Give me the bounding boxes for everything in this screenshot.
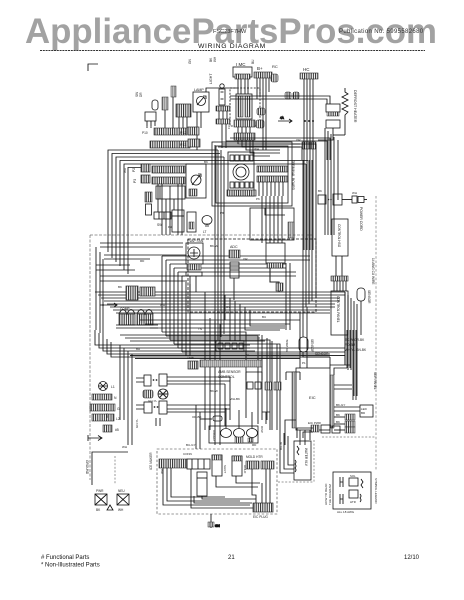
wire drops from P2 bbox=[257, 78, 269, 150]
right boundary dash-dot bbox=[371, 196, 377, 470]
svg-text:G: G bbox=[117, 407, 120, 411]
svg-text:EIC PLUG: EIC PLUG bbox=[253, 515, 268, 519]
svg-text:SW: SW bbox=[157, 223, 163, 227]
ground L wire bbox=[92, 452, 128, 485]
connector J3 dark bbox=[180, 139, 200, 147]
dispenser box with motors bbox=[209, 426, 264, 443]
defrost timer M1 bbox=[228, 152, 254, 196]
svg-text:ADC: ADC bbox=[230, 245, 238, 249]
svg-text:SENSOR: SENSOR bbox=[315, 352, 329, 356]
plug X2 bbox=[117, 489, 129, 512]
svg-text:WH: WH bbox=[122, 445, 127, 449]
EIC right fanned wires bbox=[334, 385, 360, 430]
junction pointer left bbox=[100, 303, 117, 307]
terminal wires long drop bbox=[262, 196, 290, 330]
wire pair below label box bbox=[336, 256, 342, 276]
wire bundle left of valve bbox=[280, 430, 294, 473]
svg-text:BK WIRE: BK WIRE bbox=[285, 339, 289, 352]
svg-text:L2: L2 bbox=[116, 417, 120, 421]
svg-text:21: 21 bbox=[228, 555, 235, 561]
svg-text:FSC23F7HW: FSC23F7HW bbox=[213, 29, 247, 35]
svg-text:P13: P13 bbox=[180, 143, 186, 147]
adc housing box bbox=[250, 208, 294, 240]
svg-text:L1: L1 bbox=[111, 385, 115, 389]
footer functional parts note bbox=[41, 555, 100, 569]
svg-text:#5: #5 bbox=[115, 428, 119, 432]
strip TS3 bbox=[154, 212, 171, 227]
inline connector chain 1 bbox=[136, 374, 230, 386]
staircase corners center bbox=[205, 292, 285, 341]
svg-text:WH: WH bbox=[118, 508, 124, 512]
connector J2 dark bbox=[180, 127, 199, 135]
svg-text:WH: WH bbox=[352, 191, 357, 195]
label RC bbox=[272, 64, 278, 69]
svg-text:GN: GN bbox=[105, 414, 109, 419]
svg-text:TMB: TMB bbox=[187, 356, 194, 360]
freezer lamp box bbox=[186, 164, 206, 198]
highway right turns down bbox=[345, 292, 357, 396]
dispenser feed wires bbox=[200, 408, 270, 428]
svg-text:BK: BK bbox=[204, 160, 208, 164]
ice maker connector strip bbox=[159, 459, 210, 469]
right harness box bbox=[360, 405, 373, 417]
svg-text:SENSOR: SENSOR bbox=[367, 290, 371, 304]
mid terminal strip with squares bbox=[216, 341, 244, 351]
dark connector pair on wire bbox=[285, 92, 299, 99]
EIC left pin strip bbox=[292, 372, 296, 428]
svg-text:P9: P9 bbox=[168, 225, 172, 229]
staircase corners right-mid bbox=[196, 377, 230, 449]
wires from terminal strips down bbox=[158, 184, 182, 235]
footer date bbox=[404, 555, 420, 561]
left verticals down bbox=[96, 247, 103, 336]
svg-text:TERMINAL BOARD: TERMINAL BOARD bbox=[291, 160, 295, 191]
knot nested corners mid-left bbox=[95, 330, 330, 357]
svg-text:ICE MAKER: ICE MAKER bbox=[149, 452, 153, 470]
HC mid pins bbox=[302, 120, 316, 149]
dashed line under EIC bbox=[322, 436, 375, 438]
wire drops from P1 bbox=[238, 79, 248, 94]
svg-text:P10: P10 bbox=[142, 131, 148, 135]
title WIRING DIAGRAM bbox=[198, 43, 266, 50]
svg-text:MOLD HTR: MOLD HTR bbox=[246, 455, 263, 459]
svg-text:BK: BK bbox=[318, 189, 322, 193]
dark bar bbox=[150, 141, 190, 148]
svg-text:EVAP FAN: EVAP FAN bbox=[187, 239, 204, 243]
bottom-left arrow symbol bbox=[88, 435, 102, 441]
connector dark CN-L1 bbox=[132, 164, 150, 172]
svg-text:HTR: HTR bbox=[350, 500, 356, 504]
margin dash label bbox=[135, 419, 139, 429]
svg-text:BK-W: BK-W bbox=[210, 389, 218, 393]
EIC bottom wires bbox=[285, 420, 310, 445]
label box control housing bbox=[332, 219, 348, 256]
terminal strip TS1 bbox=[152, 166, 185, 173]
EIC board bbox=[296, 368, 330, 430]
svg-text:DR: DR bbox=[139, 92, 143, 97]
highway turns into EIC verticals bbox=[300, 307, 307, 368]
wires top of water valve bbox=[297, 428, 313, 438]
svg-text:CONTROL PANEL: CONTROL PANEL bbox=[336, 296, 340, 323]
ice maker dashed box bbox=[149, 449, 277, 514]
svg-text:I MC: I MC bbox=[236, 62, 246, 67]
ice maker tall boxes bbox=[212, 455, 260, 487]
long strip mid bbox=[200, 360, 262, 379]
svg-text:BK: BK bbox=[118, 285, 122, 289]
svg-text:GY: GY bbox=[226, 305, 230, 309]
water valve dashed boundary bbox=[278, 440, 314, 482]
svg-text:P6: P6 bbox=[256, 197, 260, 201]
svg-text:RC: RC bbox=[272, 64, 278, 69]
stub below ice maker bbox=[208, 514, 220, 528]
trunk horizontals upper (to right bundles) bbox=[218, 138, 330, 160]
svg-text:BU-GY: BU-GY bbox=[186, 443, 196, 447]
publication number text bbox=[339, 29, 424, 35]
water valve box bbox=[279, 441, 311, 480]
bracket contacts bbox=[246, 372, 300, 380]
vertical bundle right x~303-313 bbox=[303, 160, 316, 310]
S-bundle upper horizontals bbox=[162, 256, 310, 276]
dark control box bbox=[176, 104, 191, 128]
wires left cluster bbox=[197, 88, 237, 150]
svg-text:GN-YL: GN-YL bbox=[135, 419, 139, 429]
ice maker nested wires bbox=[163, 468, 256, 508]
svg-text:14 AWG CU WIRE: 14 AWG CU WIRE bbox=[371, 258, 375, 284]
timer bottom bar dark bbox=[227, 190, 256, 196]
svg-text:ALL 18 AWG: ALL 18 AWG bbox=[337, 510, 355, 514]
svg-text:P8: P8 bbox=[220, 211, 224, 215]
band lines upper mid bbox=[96, 243, 186, 281]
dark connector RC2 bbox=[257, 108, 265, 115]
heavy trunk dark bbox=[130, 356, 345, 359]
knot verticals down bbox=[120, 345, 132, 445]
model number text bbox=[213, 29, 247, 35]
left margin strip 3 bbox=[92, 414, 120, 421]
defrost heater assembly bbox=[266, 243, 285, 292]
svg-text:BK: BK bbox=[336, 413, 340, 417]
wires descending center to bottom bbox=[205, 315, 277, 445]
relay box K2 bbox=[172, 210, 184, 232]
wire drops from P3 bbox=[304, 79, 313, 250]
label box lower right bbox=[331, 291, 348, 335]
svg-text:WH: WH bbox=[160, 303, 165, 307]
arrow marker bbox=[278, 116, 292, 123]
S-bundle lower horizontals bbox=[162, 332, 345, 430]
main trunk highway horizontal bbox=[95, 292, 345, 313]
svg-text:GN-YL: GN-YL bbox=[148, 399, 158, 403]
vertical bundle right x~325-340 bbox=[325, 128, 338, 235]
tiny connectors M-M bbox=[247, 382, 281, 390]
watermark AppliancePartsPros.com bbox=[25, 12, 437, 51]
svg-text:THE DIAGRAM: THE DIAGRAM bbox=[328, 484, 332, 505]
connector strip under fuse bbox=[216, 106, 230, 148]
capsule switch bbox=[135, 92, 158, 110]
svg-text:OR-BK: OR-BK bbox=[192, 415, 202, 419]
terminal strip TS2 bbox=[152, 177, 185, 184]
EIC right pin strip bbox=[330, 375, 334, 428]
svg-text:EIC: EIC bbox=[309, 395, 316, 400]
wire color labels scattered bbox=[105, 125, 357, 449]
svg-text:SER PANEL: SER PANEL bbox=[373, 372, 377, 390]
wires under terminal board bbox=[259, 182, 283, 196]
cabinet boundary vertical left bbox=[89, 235, 91, 480]
ice maker right strip bbox=[246, 455, 274, 469]
svg-text:SENSOR: SENSOR bbox=[310, 339, 314, 353]
lamp assembly freezer light bbox=[193, 88, 209, 112]
svg-text:B+: B+ bbox=[257, 66, 263, 71]
compressor cluster bbox=[116, 286, 158, 328]
svg-text:GN: GN bbox=[215, 524, 220, 528]
svg-text:COMP: COMP bbox=[120, 307, 130, 311]
S-bundle left verticals bbox=[162, 256, 182, 352]
EIC wires into top nested bbox=[330, 292, 350, 375]
control box K1 bbox=[156, 186, 185, 199]
dark connector RC3 bbox=[256, 120, 264, 128]
left margin strip 2 bbox=[90, 404, 120, 411]
timer enclosure boxes bbox=[212, 142, 292, 206]
dark connector RC1 bbox=[271, 74, 278, 82]
svg-text:TN: TN bbox=[198, 327, 202, 331]
svg-text:WH: WH bbox=[254, 147, 259, 151]
svg-text:* Non-Illustrated Parts: * Non-Illustrated Parts bbox=[41, 563, 100, 569]
svg-text:BU: BU bbox=[251, 59, 255, 64]
svg-text:DISP: DISP bbox=[260, 426, 264, 433]
svg-text:EIC PWR: EIC PWR bbox=[308, 421, 322, 425]
svg-text:DEFROST HEATER: DEFROST HEATER bbox=[353, 90, 357, 123]
terminal board TB bbox=[257, 160, 295, 191]
svg-text:SYMBOL LEGEND: SYMBOL LEGEND bbox=[374, 478, 378, 504]
svg-text:P3: P3 bbox=[133, 179, 137, 183]
footer page number bbox=[228, 555, 235, 561]
inline connectors right of EIC bbox=[345, 414, 355, 433]
svg-text:LAMP: LAMP bbox=[194, 88, 204, 92]
svg-text:BK: BK bbox=[336, 420, 340, 424]
svg-text:LT: LT bbox=[203, 230, 207, 234]
svg-text:AMB SENSOR: AMB SENSOR bbox=[218, 370, 241, 374]
svg-text:SHUT: SHUT bbox=[223, 465, 227, 473]
svg-text:BK-W OR-BK: BK-W OR-BK bbox=[345, 338, 365, 342]
svg-text:WH: WH bbox=[213, 56, 217, 62]
dashed drop bbox=[85, 456, 115, 484]
svg-text:BU: BU bbox=[262, 315, 266, 319]
sensor oval bbox=[299, 337, 330, 357]
svg-text:SOL: SOL bbox=[350, 474, 356, 478]
svg-text:YL: YL bbox=[246, 353, 250, 357]
svg-text:BK-GY: BK-GY bbox=[336, 403, 345, 407]
svg-text:WIRING DIAGRAM: WIRING DIAGRAM bbox=[198, 43, 266, 50]
inline connector chain 2 bbox=[136, 401, 230, 426]
svg-text:# Functional Parts: # Functional Parts bbox=[41, 555, 89, 561]
power cord chain bbox=[318, 194, 367, 231]
top small marks above arrow bbox=[103, 425, 119, 432]
left margin icon pair bbox=[99, 382, 115, 391]
pin fan bbox=[334, 281, 346, 291]
small triangle bbox=[107, 505, 113, 510]
connector bar mid-right bbox=[331, 276, 348, 281]
bundle verticals right bbox=[347, 330, 356, 400]
page corner mark bbox=[88, 64, 98, 71]
trunk bundle top-left corners bbox=[108, 150, 308, 274]
connector P1 ice-maker plug bbox=[233, 62, 252, 79]
svg-text:POWER CORD: POWER CORD bbox=[359, 207, 363, 231]
wire row labels bbox=[336, 403, 345, 424]
svg-text:12/10: 12/10 bbox=[404, 555, 420, 561]
wire nut crossed circle bbox=[158, 389, 168, 399]
svg-text:NEU: NEU bbox=[118, 489, 125, 493]
svg-text:AUGER: AUGER bbox=[212, 430, 216, 442]
fan wires from center bars bbox=[238, 140, 300, 156]
cabinet boundary horizontal bbox=[90, 234, 312, 236]
svg-text:GN: GN bbox=[188, 59, 192, 64]
vertical trunk center x~215 bbox=[215, 145, 224, 343]
ice maker label left bbox=[160, 452, 192, 474]
connector bar center 2 bbox=[234, 133, 255, 140]
svg-text:LIGHT: LIGHT bbox=[209, 73, 213, 84]
svg-text:P2: P2 bbox=[132, 168, 136, 172]
legend detail box bbox=[324, 472, 378, 514]
svg-text:CONN: CONN bbox=[183, 452, 192, 456]
svg-text:PWR: PWR bbox=[96, 489, 104, 493]
tiny labels above connectors bbox=[188, 56, 255, 64]
plug X1 bbox=[95, 489, 107, 512]
small relay box bbox=[145, 112, 156, 128]
connector pair right CN1 bbox=[318, 104, 345, 140]
inline connectors above water valve bbox=[321, 425, 340, 433]
bundle labels right top bbox=[345, 338, 367, 352]
vertical label strip bbox=[171, 86, 176, 128]
wire horizontal runs top bbox=[216, 96, 330, 108]
evap fan motor M2 bbox=[186, 239, 204, 292]
fresh food box outline bbox=[188, 239, 316, 312]
connector P3 top-right header bbox=[300, 67, 318, 79]
EIC PWR dark box bbox=[308, 421, 322, 432]
svg-text:BK-W: BK-W bbox=[210, 244, 218, 248]
svg-text:WATER VLV: WATER VLV bbox=[304, 448, 308, 467]
svg-text:P1: P1 bbox=[302, 361, 306, 365]
connector bar center 1 bbox=[234, 120, 255, 133]
resistor R heater zigzag bbox=[342, 88, 357, 135]
connector strip upper bbox=[142, 128, 187, 135]
junction box center bbox=[230, 88, 260, 126]
extra mid lines bbox=[140, 280, 300, 356]
connector P2 bbox=[254, 66, 272, 78]
ice maker bottom header bbox=[252, 469, 273, 519]
svg-text:WH: WH bbox=[160, 469, 164, 474]
ice maker motor box bbox=[197, 472, 207, 496]
freezer lamp lower bbox=[187, 212, 196, 232]
left margin strip 1 bbox=[92, 394, 117, 400]
capacitor C1 bbox=[145, 192, 152, 215]
svg-text:HC: HC bbox=[303, 67, 310, 72]
svg-text:GROUND: GROUND bbox=[85, 460, 89, 475]
fuse F1 bbox=[209, 73, 225, 105]
light bulb bbox=[202, 216, 212, 235]
vertical hatch connector bbox=[162, 97, 168, 128]
svg-text:P12: P12 bbox=[180, 131, 186, 135]
title rule line bbox=[40, 50, 425, 52]
svg-text:FZ: FZ bbox=[227, 125, 231, 129]
small dark comp TMB bbox=[187, 356, 198, 369]
connector dark CN-L2 bbox=[133, 175, 150, 183]
wire nut dark pair bbox=[143, 390, 153, 398]
thermostat assembly center bbox=[229, 245, 240, 300]
svg-text:WH: WH bbox=[123, 168, 127, 173]
svg-text:Publication No. 5995582680: Publication No. 5995582680 bbox=[339, 29, 424, 35]
svg-text:WH-BK: WH-BK bbox=[230, 397, 240, 401]
svg-text:CONTROL HSG: CONTROL HSG bbox=[337, 224, 341, 248]
thermostat capsule bbox=[357, 288, 371, 335]
